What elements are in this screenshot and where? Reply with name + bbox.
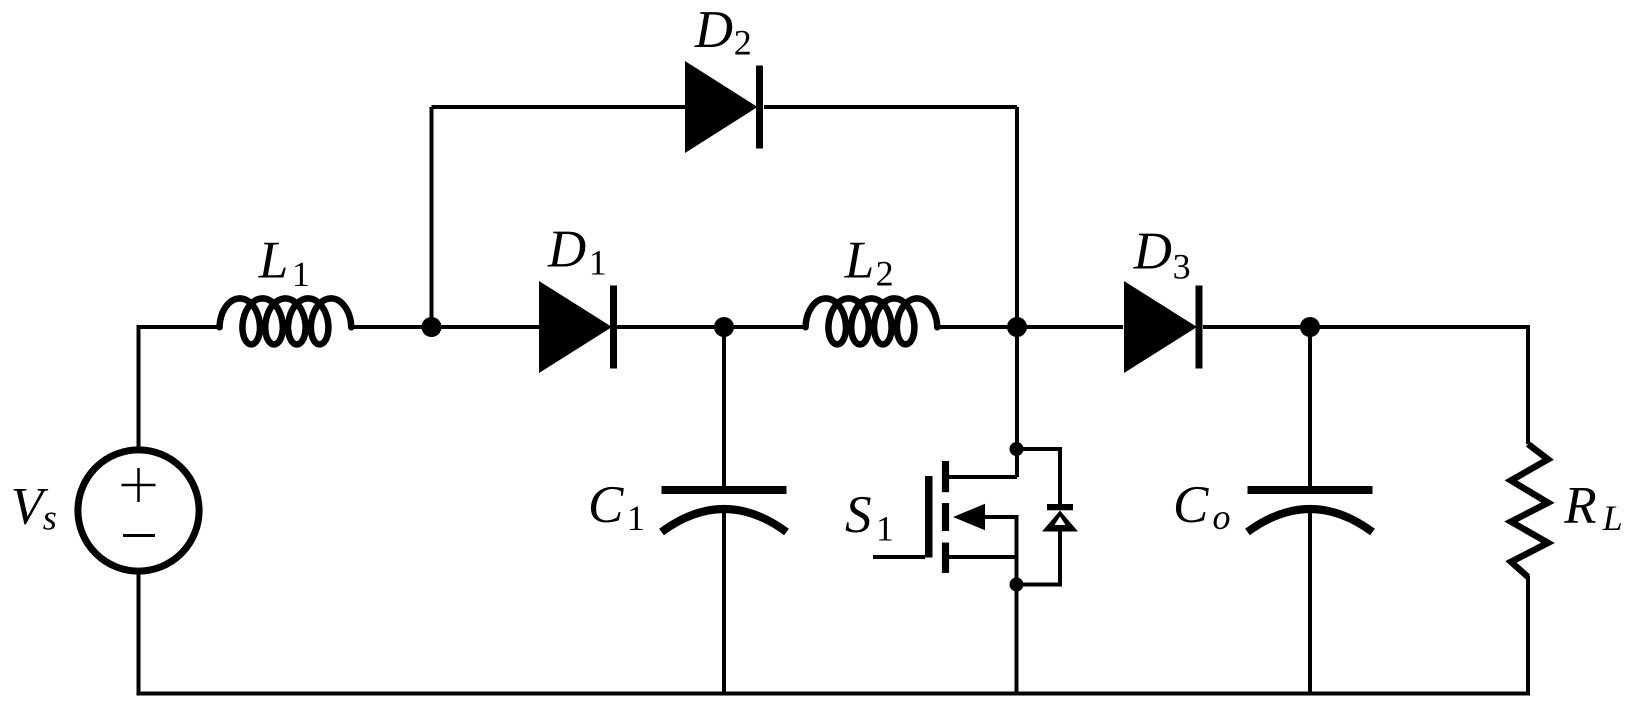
wire: main rail L1 to D1 (350, 325, 539, 329)
drain junction dot (1010, 442, 1024, 456)
resistor RL (1511, 444, 1548, 577)
svg-text:D: D (1133, 222, 1172, 280)
wire: drain lead (946, 475, 1017, 479)
svg-text:C: C (1173, 476, 1209, 534)
label D1 (547, 220, 607, 282)
voltage source Vs (78, 450, 199, 571)
label RL (1563, 477, 1622, 538)
wire: main rail L2 to D3 (936, 325, 1123, 329)
svg-text:2: 2 (734, 23, 752, 63)
node A junction dot (422, 317, 442, 337)
diode D3 (1124, 281, 1203, 373)
svg-text:1: 1 (627, 498, 645, 538)
svg-text:1: 1 (589, 243, 607, 283)
wire: C1 top lead (722, 327, 726, 490)
capacitor Co (1248, 486, 1373, 532)
svg-text:s: s (43, 498, 57, 538)
label C1 (588, 476, 645, 538)
wire: body-diode branch bottom (1017, 530, 1061, 585)
wire: main rail D3 to right corner (1203, 325, 1530, 329)
transistor S1 (NMOS) (925, 461, 985, 573)
wire: body lead and down to bottom rail (983, 517, 1017, 694)
svg-text:L: L (844, 232, 874, 290)
wire: source lead (947, 555, 1017, 559)
svg-text:o: o (1213, 497, 1231, 537)
node Co junction dot (1300, 317, 1320, 337)
svg-text:R: R (1563, 477, 1596, 535)
label D3 (1133, 222, 1191, 286)
svg-text:L: L (1602, 498, 1623, 538)
svg-text:L: L (258, 232, 288, 290)
svg-text:2: 2 (876, 253, 894, 293)
node B junction dot (1007, 317, 1027, 337)
inductor L2 (806, 298, 938, 344)
svg-text:D: D (547, 220, 586, 278)
wire: gate lead (873, 555, 925, 559)
wire: right branch bottom from RL (1526, 576, 1530, 694)
wire: riser node A to top rail (430, 107, 434, 327)
wire: bottom rail (137, 692, 1531, 696)
wire: main rail D1 to L2 (617, 325, 807, 329)
diode D1 (539, 281, 617, 373)
wire: Co bottom lead (1308, 510, 1312, 694)
source junction dot (1010, 578, 1024, 592)
svg-text:C: C (588, 476, 624, 534)
svg-text:3: 3 (1173, 247, 1191, 287)
wire: Co top lead (1308, 327, 1312, 490)
label D2 (694, 1, 752, 63)
svg-text:1: 1 (292, 254, 310, 294)
svg-text:S: S (845, 486, 872, 544)
wire: top rail left of D2 (432, 105, 686, 109)
capacitor C1 (662, 486, 787, 532)
wire: body-diode branch top (1017, 449, 1061, 505)
wire: main rail Vs corner to L1 (139, 327, 222, 329)
node C1 junction dot (714, 317, 734, 337)
label Co (1173, 476, 1231, 537)
label L2 (844, 232, 894, 294)
body diode of S1 (1042, 504, 1078, 532)
inductor L1 (220, 298, 352, 344)
label L1 (258, 232, 310, 294)
svg-text:1: 1 (876, 508, 894, 548)
label Vs (11, 477, 57, 537)
diode D2 (685, 61, 763, 153)
wire: right branch top to RL (1526, 327, 1530, 444)
wire: top rail right of D2 (764, 105, 1017, 109)
wire: left branch Vs top (137, 327, 141, 447)
wire: left branch Vs bottom (137, 573, 141, 694)
label S1 (845, 486, 894, 548)
wire: C1 bottom lead (722, 510, 726, 694)
wire: vertical at node B down to drain turn (1015, 107, 1019, 477)
svg-text:D: D (694, 1, 733, 59)
